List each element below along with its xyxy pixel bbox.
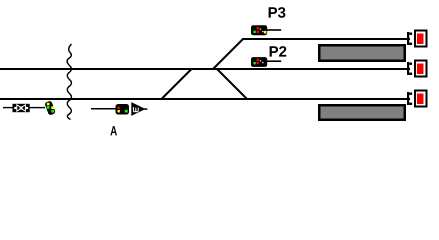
wire crossover bottom-to-middle: [161, 69, 192, 100]
signal A head: [91, 104, 129, 115]
label P2: [270, 46, 287, 57]
wire turnout middle-to-bottom: [217, 69, 248, 100]
signal R head (tilted): [44, 100, 55, 115]
signal P2 head: [251, 57, 281, 67]
wire middle track: [0, 68, 410, 70]
label A: [110, 126, 117, 135]
wire top track: [242, 38, 410, 40]
break mark (wavy line): [67, 44, 71, 120]
label P3: [269, 7, 286, 18]
platform bottom (below bottom track): [319, 105, 405, 120]
buffer stop + red box, top track: [407, 31, 427, 47]
wire bottom track: [0, 98, 410, 100]
buffer stop + red box, bottom track: [407, 91, 427, 107]
level crossing symbol: [3, 104, 45, 112]
signal A arrow: [131, 102, 147, 116]
platform top (between top and middle tracks): [319, 45, 405, 61]
signal P3 head: [251, 25, 281, 35]
buffer stop + red box, middle track: [407, 61, 427, 77]
wire turnout middle-to-top: [213, 39, 243, 69]
